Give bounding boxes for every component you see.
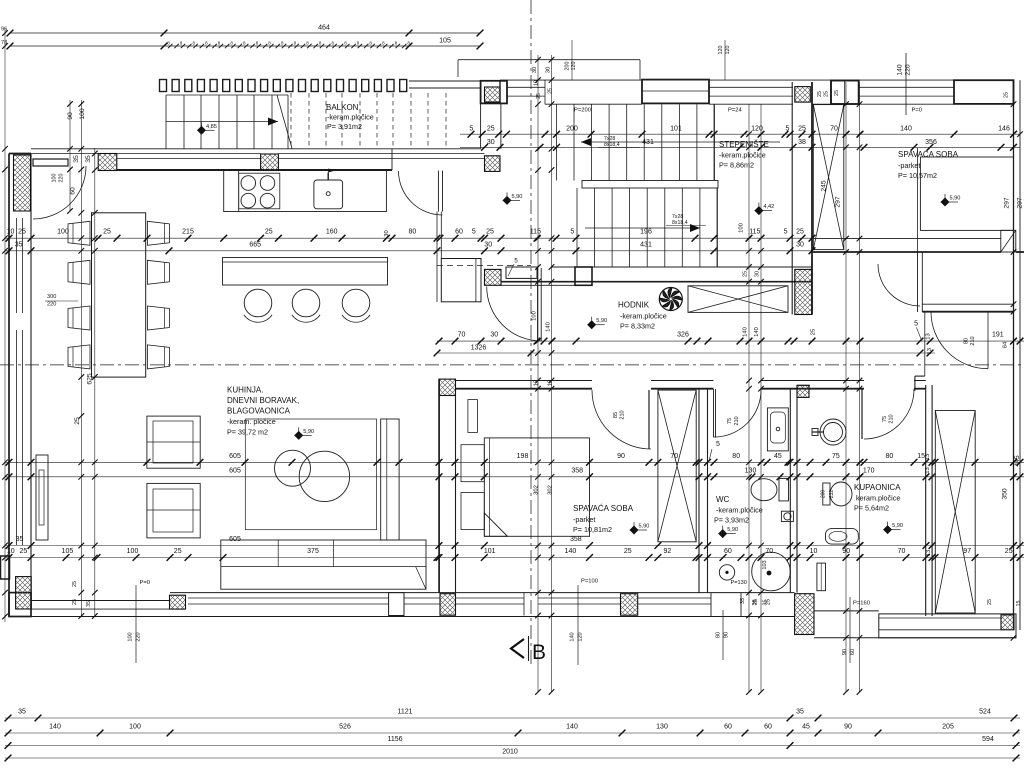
svg-text:4,42: 4,42 bbox=[763, 204, 774, 210]
top dimension line with baluster ticks bbox=[10, 45, 480, 47]
kitchen island bbox=[223, 258, 388, 286]
stairwell hatched pier top bbox=[795, 87, 811, 103]
svg-text:5,90: 5,90 bbox=[303, 429, 314, 435]
svg-text:140: 140 bbox=[570, 632, 576, 641]
top right room south wall bbox=[813, 238, 1001, 240]
svg-text:350: 350 bbox=[1002, 488, 1009, 500]
dim chain bottom 4 bbox=[5, 757, 1020, 759]
svg-text:5: 5 bbox=[570, 229, 574, 236]
centreline vertical bbox=[530, 0, 532, 666]
marker 80 90 bottom bbox=[722, 610, 724, 660]
balcony stairs treads bbox=[165, 95, 167, 149]
svg-text:70: 70 bbox=[898, 548, 906, 555]
east exterior wall bbox=[1013, 80, 1015, 630]
vert chain x749 x761 bbox=[748, 104, 750, 692]
south window 3 bbox=[456, 597, 525, 599]
balcony corner pier bbox=[481, 81, 507, 104]
svg-text:80: 80 bbox=[716, 632, 722, 638]
svg-text:P=130: P=130 bbox=[731, 580, 747, 586]
kitchen door swing bbox=[399, 171, 443, 215]
svg-text:140: 140 bbox=[900, 126, 912, 133]
svg-text:140: 140 bbox=[566, 724, 578, 731]
bedroom2 east wall bbox=[698, 389, 700, 593]
dim chain y462 bbox=[5, 461, 1024, 463]
carpet bbox=[245, 419, 376, 530]
parapet corner block bbox=[575, 267, 592, 285]
vert chain x846 x860 bbox=[845, 82, 847, 692]
svg-text:200: 200 bbox=[821, 490, 827, 499]
svg-text:210: 210 bbox=[889, 414, 895, 423]
dining chairs right bbox=[147, 221, 169, 245]
svg-text:10: 10 bbox=[810, 548, 818, 555]
south pier white bbox=[389, 593, 404, 616]
svg-text:1121: 1121 bbox=[397, 709, 412, 716]
stairwell top wall block bbox=[642, 80, 709, 104]
svg-text:30: 30 bbox=[484, 241, 492, 248]
svg-text:146: 146 bbox=[998, 126, 1010, 133]
armchair 1 bbox=[147, 416, 200, 468]
svg-text:25: 25 bbox=[1005, 548, 1013, 555]
vert chain x95 bbox=[94, 148, 96, 616]
svg-text:P= 10,81m2: P= 10,81m2 bbox=[573, 525, 612, 534]
wc boiler bbox=[752, 552, 791, 591]
svg-text:25: 25 bbox=[798, 126, 806, 133]
kitchen counter bbox=[224, 171, 387, 212]
left wall hatch bottom bbox=[16, 577, 32, 609]
stairwell level 4,42 bbox=[755, 207, 763, 215]
svg-text:326: 326 bbox=[677, 332, 689, 339]
svg-text:60: 60 bbox=[455, 229, 463, 236]
bed fold bbox=[484, 513, 507, 536]
level marker hodnik bbox=[588, 321, 596, 329]
svg-text:70: 70 bbox=[830, 126, 838, 133]
kitchen north wall lines bbox=[31, 148, 481, 150]
stairwell parapet bbox=[552, 266, 812, 268]
svg-text:P= 3,93m2: P= 3,93m2 bbox=[714, 516, 749, 525]
dim chain y147 bbox=[460, 146, 1020, 148]
marker P=0 bottom bbox=[135, 585, 137, 663]
wc toilet bbox=[751, 479, 777, 501]
east wing step wall bbox=[915, 375, 925, 377]
svg-text:100: 100 bbox=[128, 632, 134, 641]
stair arrow up bbox=[581, 141, 780, 143]
svg-text:300: 300 bbox=[47, 294, 56, 300]
svg-text:80: 80 bbox=[409, 229, 417, 236]
svg-text:25: 25 bbox=[20, 548, 28, 555]
dim chain y557 bbox=[5, 557, 1024, 559]
vert chain x538 x552 bbox=[537, 55, 539, 692]
stair treads upper flight bbox=[556, 104, 558, 180]
svg-text:35: 35 bbox=[85, 155, 92, 163]
svg-text:90: 90 bbox=[67, 112, 74, 120]
dim chain y353 bbox=[437, 352, 935, 354]
svg-text:220: 220 bbox=[136, 632, 142, 641]
svg-text:HODNIK: HODNIK bbox=[618, 301, 650, 310]
svg-text:25: 25 bbox=[796, 229, 804, 236]
svg-text:85: 85 bbox=[613, 412, 619, 418]
svg-text:140: 140 bbox=[565, 548, 577, 555]
svg-text:205: 205 bbox=[942, 724, 954, 731]
svg-text:25: 25 bbox=[624, 548, 632, 555]
kupaonica east wall bbox=[925, 385, 927, 616]
svg-text:220: 220 bbox=[905, 64, 912, 76]
svg-text:-keram.pločice: -keram.pločice bbox=[716, 506, 763, 515]
svg-text:DNEVNI BORAVAK,: DNEVNI BORAVAK, bbox=[227, 396, 299, 405]
north wall pier hatched 3 bbox=[485, 156, 501, 172]
svg-text:13: 13 bbox=[926, 550, 932, 556]
svg-text:80: 80 bbox=[732, 453, 740, 460]
north wall pier hatched bbox=[98, 154, 117, 171]
sofa bbox=[221, 540, 426, 589]
bar stool 1 bbox=[244, 289, 272, 317]
svg-text:464: 464 bbox=[318, 24, 330, 32]
svg-text:25: 25 bbox=[74, 417, 81, 425]
svg-text:30: 30 bbox=[487, 139, 495, 146]
svg-text:431: 431 bbox=[640, 241, 652, 248]
nightstand bbox=[468, 400, 478, 433]
svg-text:5: 5 bbox=[784, 229, 788, 236]
svg-text:524: 524 bbox=[979, 709, 991, 716]
dim chain y341 bbox=[437, 340, 1024, 342]
section mark left bbox=[1, 556, 10, 579]
top dimension line 464 bbox=[10, 32, 480, 34]
svg-text:220: 220 bbox=[47, 302, 56, 308]
wc east wall hatch top bbox=[797, 385, 809, 397]
svg-text:25: 25 bbox=[1003, 92, 1009, 98]
bed top right bbox=[920, 157, 1013, 230]
svg-text:297: 297 bbox=[834, 196, 841, 208]
dim chain bottom 1 bbox=[5, 717, 1020, 719]
south rooms north wall bbox=[456, 380, 593, 382]
svg-text:-keram. pločice: -keram. pločice bbox=[227, 417, 276, 426]
svg-text:38: 38 bbox=[798, 139, 806, 146]
wc door leaf bbox=[713, 389, 715, 438]
svg-text:25: 25 bbox=[103, 229, 111, 236]
svg-text:105: 105 bbox=[62, 548, 74, 555]
svg-text:35: 35 bbox=[796, 709, 804, 716]
stairwell window mid bbox=[709, 86, 793, 88]
svg-text:BLAGOVAONICA: BLAGOVAONICA bbox=[227, 407, 291, 416]
north-east window bbox=[860, 86, 955, 88]
wc washbasin bbox=[767, 408, 788, 451]
svg-text:75: 75 bbox=[882, 416, 888, 422]
svg-text:92: 92 bbox=[664, 548, 672, 555]
svg-text:25: 25 bbox=[486, 229, 494, 236]
svg-text:30: 30 bbox=[384, 230, 390, 236]
svg-text:140: 140 bbox=[546, 322, 552, 332]
svg-text:25: 25 bbox=[536, 93, 542, 99]
svg-text:25: 25 bbox=[548, 88, 554, 94]
svg-text:5: 5 bbox=[716, 441, 720, 448]
svg-text:KUPAONICA: KUPAONICA bbox=[854, 483, 901, 492]
balcony railing balusters bbox=[160, 80, 167, 92]
svg-text:25: 25 bbox=[753, 599, 759, 605]
bed bottom bbox=[484, 438, 589, 536]
svg-text:200: 200 bbox=[566, 126, 578, 133]
svg-text:60: 60 bbox=[724, 548, 732, 555]
vert chain x70 bbox=[69, 100, 71, 211]
svg-text:-parket: -parket bbox=[898, 161, 920, 170]
svg-text:45: 45 bbox=[802, 724, 810, 731]
svg-text:25: 25 bbox=[765, 599, 771, 605]
marker P=100 bottom bbox=[577, 585, 579, 665]
svg-text:25: 25 bbox=[487, 126, 495, 133]
svg-text:25: 25 bbox=[72, 581, 78, 587]
svg-text:P=100: P=100 bbox=[581, 579, 598, 585]
svg-text:130: 130 bbox=[656, 724, 668, 731]
svg-text:75: 75 bbox=[727, 418, 733, 424]
vert chain x81 bbox=[80, 100, 82, 616]
svg-text:100: 100 bbox=[52, 174, 58, 183]
centreline horizontal bbox=[0, 364, 1024, 366]
svg-text:210: 210 bbox=[620, 410, 626, 419]
svg-text:35: 35 bbox=[18, 709, 26, 716]
svg-text:431: 431 bbox=[642, 139, 654, 146]
svg-text:297: 297 bbox=[1003, 197, 1010, 209]
hodnik door leaf bbox=[537, 268, 539, 341]
svg-text:70: 70 bbox=[765, 548, 773, 555]
window marker P=0 (top right) bbox=[905, 53, 907, 115]
svg-text:60: 60 bbox=[850, 649, 856, 655]
svg-text:115: 115 bbox=[749, 229, 760, 236]
kitchen faucet bbox=[327, 173, 329, 181]
svg-text:1326: 1326 bbox=[471, 345, 487, 352]
north wall right block bbox=[831, 81, 859, 105]
vert chain x725 bbox=[724, 40, 726, 80]
svg-text:13: 13 bbox=[534, 380, 540, 386]
svg-text:25: 25 bbox=[817, 91, 823, 97]
balcony stairs diagonal bbox=[277, 95, 292, 149]
svg-text:30: 30 bbox=[546, 67, 552, 73]
svg-text:220: 220 bbox=[59, 174, 65, 183]
stove hob bbox=[239, 173, 280, 209]
section mark B bottom bbox=[511, 639, 524, 658]
wall fold symbol bbox=[1001, 230, 1016, 252]
svg-text:215: 215 bbox=[182, 229, 194, 236]
svg-text:100: 100 bbox=[127, 548, 139, 555]
level marker bedroom2 bbox=[630, 526, 638, 534]
bar stool 2 bbox=[292, 289, 320, 317]
svg-text:90: 90 bbox=[724, 632, 730, 638]
svg-text:WC: WC bbox=[716, 495, 730, 504]
svg-text:8x18,4: 8x18,4 bbox=[672, 220, 688, 226]
svg-text:232: 232 bbox=[829, 490, 835, 499]
compass rose bbox=[659, 288, 682, 311]
svg-text:5,90: 5,90 bbox=[639, 524, 650, 530]
svg-text:5,90: 5,90 bbox=[727, 527, 738, 533]
svg-text:-keram.pločice: -keram.pločice bbox=[620, 312, 667, 321]
stairwell east hatched pier bbox=[795, 269, 812, 314]
hodnik door swing bbox=[487, 287, 542, 342]
svg-text:196: 196 bbox=[640, 229, 652, 236]
dim chain y477 bbox=[5, 476, 1024, 478]
svg-text:605: 605 bbox=[229, 536, 241, 543]
svg-text:P=200: P=200 bbox=[574, 108, 591, 114]
svg-text:160: 160 bbox=[326, 229, 338, 236]
dim chain y545 bbox=[5, 545, 1024, 547]
shaft wardrobe X tall bbox=[935, 411, 975, 614]
svg-text:5,90: 5,90 bbox=[512, 194, 523, 200]
bar stool 3 bbox=[342, 289, 370, 317]
stairwell upper outline bbox=[500, 79, 1014, 81]
plant table large bbox=[299, 451, 349, 501]
south wall step verticals bbox=[710, 593, 712, 617]
svg-text:84: 84 bbox=[1002, 341, 1008, 348]
balcony level marker 4,85 bbox=[198, 126, 206, 134]
svg-text:191: 191 bbox=[992, 332, 1004, 339]
level marker wc bbox=[719, 530, 727, 538]
svg-text:15: 15 bbox=[917, 453, 925, 460]
south hatch pier tall right bbox=[795, 594, 814, 635]
svg-text:13: 13 bbox=[926, 333, 932, 339]
kupaonica bidet bbox=[826, 529, 859, 545]
plant table small bbox=[275, 450, 311, 486]
south window 4 bbox=[538, 597, 621, 599]
svg-text:-parket: -parket bbox=[573, 515, 595, 524]
svg-text:100: 100 bbox=[532, 311, 538, 321]
left wall window bbox=[16, 218, 18, 313]
svg-text:30: 30 bbox=[490, 332, 498, 339]
level marker top right room bbox=[941, 198, 949, 206]
south hatch pier right end bbox=[1001, 615, 1014, 630]
svg-text:1156: 1156 bbox=[387, 736, 402, 743]
stair treads lower flight bbox=[576, 188, 578, 267]
south wall outer edge bbox=[9, 616, 795, 618]
dim chain y238 bbox=[5, 237, 812, 239]
svg-text:13: 13 bbox=[927, 348, 933, 354]
svg-text:P=160: P=160 bbox=[853, 601, 870, 607]
bed pillows bbox=[461, 445, 484, 482]
hodnik cabinet X bbox=[688, 286, 788, 313]
wc door swing bbox=[714, 390, 761, 437]
level marker living bbox=[295, 431, 303, 439]
kupaonica shower glass bbox=[817, 563, 826, 591]
svg-text:100: 100 bbox=[57, 229, 69, 236]
svg-text:KUHINJA.: KUHINJA. bbox=[227, 386, 263, 395]
svg-text:5: 5 bbox=[786, 126, 790, 133]
marker P=160 bottom bbox=[849, 597, 851, 663]
svg-text:35: 35 bbox=[740, 598, 746, 604]
svg-text:594: 594 bbox=[982, 736, 994, 743]
svg-text:120: 120 bbox=[718, 46, 724, 55]
svg-text:P=0: P=0 bbox=[140, 580, 150, 586]
svg-text:70: 70 bbox=[458, 332, 466, 339]
dashed overhead line bbox=[437, 265, 531, 267]
south window 5 bbox=[638, 597, 711, 599]
dim chain bottom 3 bbox=[5, 745, 1020, 747]
kupaonica toilet bbox=[830, 482, 852, 506]
hodnik wall stub bbox=[506, 267, 537, 278]
svg-text:13: 13 bbox=[925, 467, 931, 473]
svg-text:-keram.pločice: -keram.pločice bbox=[719, 151, 766, 160]
svg-text:25: 25 bbox=[823, 91, 829, 97]
sofa chaise bbox=[381, 419, 399, 540]
dining chairs left bbox=[68, 221, 90, 245]
svg-text:245: 245 bbox=[820, 180, 827, 192]
vert chain x1013 ticks bbox=[1011, 101, 1017, 107]
wc small box bbox=[781, 511, 793, 521]
balcony right edge verticals bbox=[480, 103, 482, 148]
svg-text:60: 60 bbox=[764, 724, 772, 731]
hodnik north hatched pier bbox=[485, 269, 502, 285]
wc east wall bbox=[789, 389, 791, 593]
level marker kupaonica bbox=[884, 526, 892, 534]
svg-text:5: 5 bbox=[472, 229, 476, 236]
svg-text:90: 90 bbox=[617, 453, 625, 460]
armchair 2 bbox=[147, 483, 200, 538]
svg-text:101: 101 bbox=[484, 548, 496, 555]
svg-text:302: 302 bbox=[547, 485, 553, 495]
svg-text:358: 358 bbox=[570, 536, 582, 543]
bedroom2 west wall hatch bbox=[439, 379, 455, 395]
south hatch pier 2 bbox=[440, 594, 456, 616]
svg-text:SPAVAĆA SOBA: SPAVAĆA SOBA bbox=[898, 150, 959, 159]
svg-text:30: 30 bbox=[532, 67, 538, 73]
svg-text:356: 356 bbox=[925, 139, 937, 146]
svg-text:605: 605 bbox=[229, 453, 241, 460]
svg-text:665: 665 bbox=[249, 241, 261, 248]
dim chain y251 bbox=[5, 250, 812, 252]
svg-text:P=24: P=24 bbox=[728, 108, 742, 114]
svg-text:P= 10,57m2: P= 10,57m2 bbox=[898, 171, 937, 180]
south wall right segment bbox=[814, 610, 879, 612]
kitchen door leaf bbox=[437, 171, 439, 212]
svg-text:302: 302 bbox=[534, 485, 540, 495]
svg-text:45: 45 bbox=[774, 453, 782, 460]
svg-text:120: 120 bbox=[725, 46, 731, 55]
svg-text:90: 90 bbox=[842, 649, 848, 655]
svg-text:200: 200 bbox=[565, 62, 571, 71]
tv board bbox=[36, 455, 48, 540]
svg-text:13: 13 bbox=[547, 380, 553, 386]
svg-text:90: 90 bbox=[844, 724, 852, 731]
svg-text:5,90: 5,90 bbox=[950, 196, 961, 202]
svg-text:100: 100 bbox=[79, 108, 86, 120]
svg-text:35: 35 bbox=[86, 601, 92, 607]
svg-text:100: 100 bbox=[129, 724, 141, 731]
entry door top-left swing bbox=[33, 166, 86, 219]
svg-text:100: 100 bbox=[739, 223, 745, 233]
svg-text:15: 15 bbox=[1016, 601, 1022, 607]
wardrobe X top right bbox=[813, 105, 844, 250]
south wall left corner bbox=[9, 593, 31, 617]
svg-text:605: 605 bbox=[229, 467, 241, 474]
kitchen sink bbox=[314, 180, 343, 209]
balcony stairs arrow bbox=[166, 121, 278, 123]
svg-text:75: 75 bbox=[832, 453, 840, 460]
svg-text:140: 140 bbox=[49, 724, 61, 731]
svg-text:70: 70 bbox=[670, 453, 678, 460]
svg-text:101: 101 bbox=[670, 126, 682, 133]
svg-text:35: 35 bbox=[16, 536, 24, 543]
bedroom2 west wall bbox=[438, 379, 440, 592]
svg-text:25: 25 bbox=[743, 271, 749, 277]
balcony deck dashed lines bbox=[290, 93, 292, 148]
svg-text:25: 25 bbox=[811, 329, 817, 335]
left wall hatched pier bbox=[14, 155, 31, 211]
terrace slider bbox=[31, 600, 170, 602]
svg-text:140: 140 bbox=[743, 327, 749, 337]
stair handrail bbox=[582, 181, 718, 189]
svg-text:97: 97 bbox=[963, 548, 971, 555]
svg-text:P= 8,33m2: P= 8,33m2 bbox=[620, 322, 655, 331]
stair arrow lower bbox=[585, 227, 700, 229]
svg-text:198: 198 bbox=[517, 453, 529, 460]
svg-text:120: 120 bbox=[578, 632, 584, 641]
svg-text:P= 3,91m2: P= 3,91m2 bbox=[327, 122, 362, 131]
svg-text:5: 5 bbox=[469, 126, 473, 133]
svg-text:BALKON: BALKON bbox=[326, 103, 359, 112]
